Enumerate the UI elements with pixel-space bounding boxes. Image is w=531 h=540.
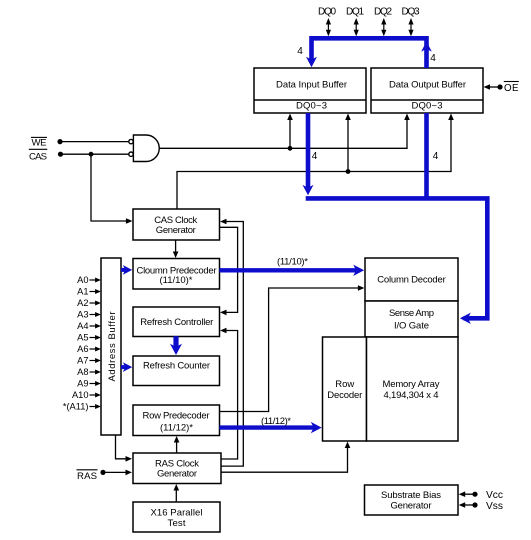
bus refresh controller to refresh counter	[173, 336, 178, 349]
arrowhead CAS out into Refresh Controller right	[220, 310, 227, 316]
svg-text:Refresh Counter: Refresh Counter	[143, 360, 210, 371]
svg-text:Vss: Vss	[486, 501, 503, 512]
pin A5 arrow	[90, 337, 97, 339]
node DQ3 double arrow	[408, 18, 413, 36]
svg-text:WE: WE	[32, 138, 47, 149]
svg-text:(11/10)*: (11/10)*	[277, 257, 308, 268]
BOXES	[101, 68, 483, 532]
svg-text:Refresh Controller: Refresh Controller	[140, 317, 213, 328]
svg-text:(11/12)*: (11/12)*	[261, 416, 291, 427]
arrowhead RAS into RAS Clock Generator	[126, 470, 133, 476]
arrowhead blue down into Refresh Counter top	[170, 344, 182, 355]
pin A6 arrow	[90, 348, 97, 350]
svg-text:4: 4	[430, 53, 436, 64]
svg-text:Generator: Generator	[391, 500, 432, 511]
junction dot CAS branch	[89, 152, 94, 157]
arrowhead Address Buffer into RAS Clock Generator	[126, 456, 133, 462]
junction dot WE pin	[57, 139, 62, 144]
bus column predecoder (11/10)*	[219, 268, 360, 272]
overline WE	[31, 136, 47, 138]
arrowhead line1 up into Data Output Buffer	[404, 114, 410, 121]
arrowhead RAS out2 into CAS Clock Generator right	[220, 219, 227, 225]
svg-text:4,194,304 x 4: 4,194,304 x 4	[384, 390, 439, 401]
bus DQ top horizontal	[312, 38, 427, 68]
svg-text:RAS: RAS	[77, 471, 97, 482]
pin A11 arrow	[90, 406, 97, 408]
pin A10 arrow	[90, 394, 97, 396]
wire RAS Clock Generator up to Row Predecoder	[176, 442, 178, 454]
block Address Buffer	[101, 258, 121, 435]
svg-text:Data Output Buffer: Data Output Buffer	[389, 80, 466, 91]
svg-text:A1: A1	[77, 287, 88, 297]
arrowhead into CAS Clock Generator left	[126, 218, 132, 224]
svg-text:Generator: Generator	[157, 469, 197, 480]
pin A2 arrow	[90, 302, 97, 304]
block Data Input Buffer	[254, 68, 366, 113]
wire CAS line to gate	[61, 153, 130, 155]
arrowhead CAS gen down into Cloumn Predecoder top	[173, 252, 179, 259]
node DQ1 double arrow	[354, 18, 359, 36]
wire gate output line1 to buffers	[160, 119, 408, 148]
svg-text:Address Buffer: Address Buffer	[107, 312, 118, 382]
arrowhead RAS gen up into Row Predecoder bottom	[174, 436, 180, 443]
wire line2 CAS clock to buffers	[177, 119, 451, 209]
arrowhead Vcc into Substrate Bias Generator	[459, 491, 466, 497]
junction dot Vcc pin	[472, 492, 477, 497]
arrowhead blue down onto internal bus	[303, 185, 314, 195]
svg-text:A4: A4	[77, 321, 88, 331]
svg-text:Decoder: Decoder	[327, 390, 362, 401]
svg-text:A9: A9	[77, 379, 88, 389]
wire RAS out3 to Row Decoder bottom	[221, 447, 348, 472]
block X16 Parallel Test	[133, 502, 220, 532]
block Column Decoder	[365, 258, 458, 301]
overline RAS	[77, 469, 98, 471]
svg-text:OE: OE	[504, 83, 519, 94]
arrowhead blue right into Row Decoder	[311, 422, 322, 433]
block Cloumn Predecoder	[133, 259, 220, 290]
BLUE BUSES	[306, 38, 488, 318]
svg-text:Generator: Generator	[156, 225, 196, 236]
svg-text:4: 4	[297, 46, 303, 57]
wire OE into Data Output Buffer	[489, 86, 500, 88]
block CAS Clock Generator	[133, 209, 220, 240]
pin A9 arrow	[90, 383, 97, 385]
bus Data Output Buffer vertical	[424, 113, 429, 198]
arrowhead RAS out3 up into Row Decoder bottom	[345, 442, 351, 449]
pin A4 arrow	[90, 325, 97, 327]
arrowhead blue right into Column Decoder	[353, 265, 364, 276]
svg-text:Row Predecoder: Row Predecoder	[143, 410, 210, 421]
junction dot line1 branch	[288, 146, 293, 151]
wire Vcc into Substrate Bias Generator	[464, 493, 475, 495]
block Sense Amp I/O Gate	[365, 301, 458, 337]
wire line1 branch up to Data Input Buffer	[289, 119, 291, 148]
address input arrows A0-A11	[90, 278, 101, 410]
svg-text:A3: A3	[77, 310, 88, 320]
arrowhead blue right into Cloumn Predecoder	[123, 265, 132, 275]
wire CAS Clock Generator down to Cloumn Predecoder	[175, 240, 177, 252]
svg-text:A2: A2	[77, 298, 88, 308]
svg-text:A6: A6	[77, 344, 88, 354]
junction dot Vss pin	[472, 502, 477, 507]
wire net RAS out1 up to Refresh Controller	[221, 331, 238, 460]
svg-text:A10: A10	[72, 390, 89, 400]
svg-text:A8: A8	[77, 367, 88, 377]
svg-text:*(A11): *(A11)	[63, 402, 89, 412]
svg-text:4: 4	[312, 151, 318, 162]
wire Address Buffer bottom to RAS Clock Generator	[116, 435, 127, 459]
svg-text:DQ0: DQ0	[318, 7, 336, 18]
arrowhead line2 up into Data Input Buffer	[345, 114, 351, 121]
junction dot RAS pin	[100, 470, 105, 475]
arrowhead OE into Data Output Buffer	[484, 84, 491, 90]
block Refresh Controller	[133, 307, 220, 337]
svg-text:DQ1: DQ1	[346, 7, 364, 18]
svg-text:Sense Amp: Sense Amp	[389, 308, 434, 319]
arrowhead blue up to DQ bus	[421, 42, 432, 52]
svg-text:(11/12)*: (11/12)*	[160, 422, 193, 433]
svg-text:DQ0~3: DQ0~3	[412, 100, 443, 111]
block Refresh Counter	[133, 356, 220, 386]
bus address buffer to cloumn predecoder	[121, 268, 128, 272]
block Row Predecoder	[133, 405, 220, 436]
svg-text:Vcc: Vcc	[486, 490, 503, 501]
wire CAS branch down to CAS Clock Generator input	[91, 154, 127, 221]
svg-text:Memory Array: Memory Array	[383, 379, 440, 390]
svg-text:A0: A0	[77, 275, 88, 285]
nand gate WE/CAS	[129, 135, 159, 162]
bus internal horizontal to Sense Amp	[306, 198, 488, 318]
arrowhead blue right into Refresh Counter	[123, 362, 132, 372]
overline CAS	[29, 148, 48, 150]
block Memory Array	[367, 337, 459, 441]
svg-text:Test: Test	[168, 518, 186, 529]
wire X16 Parallel Test up to RAS Clock Generator	[175, 490, 177, 503]
svg-text:Row: Row	[335, 379, 354, 390]
node DQ0 double arrow	[326, 18, 331, 36]
arrowhead blue down into Data Input Buffer	[306, 57, 317, 67]
junction dot OE pin	[497, 84, 502, 89]
arrowhead line2 up into Data Output Buffer	[448, 114, 454, 121]
svg-text:CAS: CAS	[29, 151, 47, 162]
wire line2 branch up to Data Input Buffer	[347, 119, 349, 172]
svg-text:DQ3: DQ3	[402, 7, 420, 18]
bus Data Input Buffer down to internal bus	[306, 113, 311, 190]
pin A0 arrow	[90, 279, 97, 281]
bus row predecoder (11/12)*	[219, 425, 317, 429]
pin A8 arrow	[90, 371, 97, 373]
wire RAS input line	[103, 471, 127, 473]
junction dot line2 branch	[346, 169, 351, 174]
pin A1 arrow	[90, 291, 97, 293]
svg-text:Data Input Buffer: Data Input Buffer	[276, 80, 347, 91]
block Row Decoder	[323, 337, 367, 441]
svg-text:4: 4	[433, 151, 439, 162]
arrowhead blue left into Sense Amp I/O Gate	[460, 313, 471, 324]
arrowhead RAS out1 into Refresh Controller right	[220, 328, 227, 334]
arrowhead line1 up into Data Input Buffer	[287, 114, 293, 121]
wire Vss into Substrate Bias Generator	[464, 504, 475, 506]
svg-text:A7: A7	[77, 356, 88, 366]
junction dot CAS pin	[58, 152, 63, 157]
node DQ2 double arrow	[381, 18, 386, 36]
arrowhead X16 up into RAS Clock Generator bottom	[174, 484, 180, 491]
wire net RAS out2 up to CAS Clock Generator	[221, 222, 244, 467]
svg-text:DQ0~3: DQ0~3	[296, 100, 327, 111]
svg-text:(11/10)*: (11/10)*	[160, 275, 193, 286]
block Substrate Bias Generator	[365, 485, 459, 515]
pin A3 arrow	[90, 314, 97, 316]
svg-text:DQ2: DQ2	[374, 7, 392, 18]
wire net CAS out down to Refresh Controller	[219, 227, 237, 312]
wire Row Predecoder out up to Column Decoder	[219, 288, 358, 412]
wire WE line to gate	[60, 141, 130, 143]
block Data Output Buffer	[371, 68, 483, 113]
overline OE	[504, 81, 519, 83]
block RAS Clock Generator	[133, 453, 221, 484]
svg-text:A5: A5	[77, 333, 88, 343]
arrowhead Vss into Substrate Bias Generator	[459, 502, 466, 508]
bus address buffer to refresh counter	[121, 365, 128, 369]
svg-text:Column Decoder: Column Decoder	[377, 275, 446, 286]
arrowhead Row Predecoder out into Column Decoder left	[358, 285, 365, 291]
pin A7 arrow	[90, 360, 97, 362]
svg-text:I/O Gate: I/O Gate	[394, 320, 429, 331]
